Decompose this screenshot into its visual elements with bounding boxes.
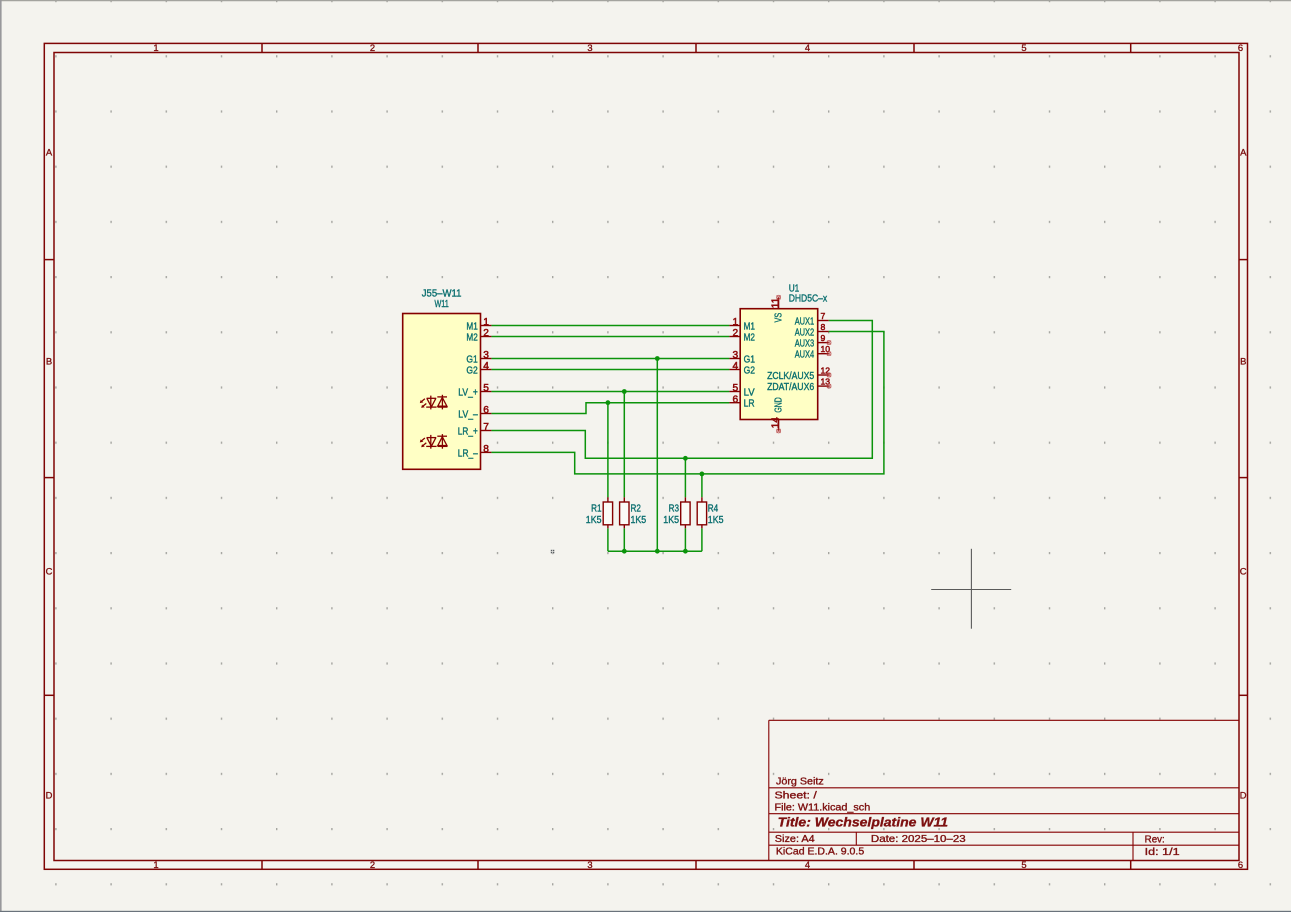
svg-text:G2: G2 bbox=[744, 365, 756, 376]
U1 pin 13 ZDAT/AUX6 bbox=[767, 377, 830, 393]
svg-text:10: 10 bbox=[821, 344, 831, 354]
wire net G2 bbox=[491, 369, 729, 371]
svg-text:7: 7 bbox=[821, 311, 826, 321]
svg-text:1K5: 1K5 bbox=[586, 515, 602, 526]
wire R2 bottom wire bbox=[623, 528, 625, 551]
svg-text:4: 4 bbox=[805, 859, 810, 870]
J55 pin 6 LV_&#8211; bbox=[458, 405, 491, 420]
resistor R3 1K5 bbox=[663, 497, 690, 528]
wire R3 top wire bbox=[684, 458, 686, 497]
svg-text:Rev:: Rev: bbox=[1145, 834, 1165, 845]
svg-text:AUX1: AUX1 bbox=[795, 316, 815, 327]
svg-text:C: C bbox=[1240, 566, 1247, 577]
svg-text:6: 6 bbox=[733, 394, 739, 405]
connector J55 body bbox=[403, 314, 481, 470]
wire R1 top wire bbox=[607, 403, 609, 498]
svg-text:2: 2 bbox=[370, 42, 375, 53]
resistor R1 1K5 bbox=[586, 497, 613, 528]
junction bus R3 bbox=[683, 549, 688, 554]
svg-text:4: 4 bbox=[733, 361, 739, 372]
svg-text:VS: VS bbox=[774, 313, 785, 323]
wire R1 bottom wire bbox=[607, 528, 609, 551]
unconnected pin marker pin 11 bbox=[777, 295, 781, 299]
svg-text:R4: R4 bbox=[708, 503, 719, 514]
svg-text:13: 13 bbox=[821, 377, 831, 387]
svg-text:A: A bbox=[46, 147, 53, 158]
wire bottom bus wire bbox=[608, 550, 702, 552]
U1 pin 14 GND bottom bbox=[770, 397, 784, 430]
svg-text:M2: M2 bbox=[744, 332, 756, 343]
J55 pin 4 G2 bbox=[466, 361, 491, 376]
J55 pin 5 LV_+ bbox=[458, 383, 491, 398]
svg-text:DHD5C–x: DHD5C–x bbox=[789, 294, 828, 305]
unconnected pin marker pin 9 bbox=[827, 341, 831, 345]
svg-text:AUX2: AUX2 bbox=[795, 327, 815, 338]
U1 pin 4 G2 bbox=[729, 361, 755, 376]
svg-text:2: 2 bbox=[483, 328, 489, 339]
svg-text:Jörg Seitz: Jörg Seitz bbox=[776, 776, 824, 787]
U1 pin 11 VS top bbox=[770, 297, 784, 322]
U1 pin 12 ZCLK/AUX5 bbox=[767, 366, 830, 382]
U1 pin 6 LR bbox=[729, 394, 754, 409]
wire net M2 bbox=[491, 336, 729, 338]
svg-text:LR_–: LR_– bbox=[458, 448, 478, 459]
svg-text:M1: M1 bbox=[466, 321, 478, 332]
svg-text:9: 9 bbox=[821, 333, 826, 343]
svg-text:Size: A4: Size: A4 bbox=[775, 834, 816, 845]
svg-text:D: D bbox=[46, 790, 53, 801]
svg-text:4: 4 bbox=[483, 361, 489, 372]
svg-text:3: 3 bbox=[587, 859, 592, 870]
frame row labels left bbox=[46, 147, 53, 801]
svg-text:4: 4 bbox=[805, 42, 810, 53]
svg-text:AUX3: AUX3 bbox=[795, 339, 815, 350]
svg-text:GND: GND bbox=[774, 397, 785, 412]
wire net G1 vertical to resistor bus bbox=[656, 359, 658, 552]
svg-text:LV_+: LV_+ bbox=[458, 387, 478, 398]
svg-text:LV: LV bbox=[744, 387, 755, 398]
svg-text:M2: M2 bbox=[466, 332, 478, 343]
svg-text:AUX4: AUX4 bbox=[795, 350, 815, 361]
svg-text:G1: G1 bbox=[466, 354, 478, 365]
svg-text:1K5: 1K5 bbox=[631, 515, 647, 526]
wire R4 bottom wire bbox=[701, 528, 703, 551]
IC U1 body bbox=[740, 309, 818, 420]
wire R4 top wire bbox=[701, 474, 703, 497]
svg-text:12: 12 bbox=[821, 366, 831, 376]
wire net LR_- to AUX2 bbox=[491, 332, 884, 474]
frame column labels bottom bbox=[153, 859, 1243, 870]
svg-text:1K5: 1K5 bbox=[663, 515, 679, 526]
svg-text:2: 2 bbox=[733, 328, 739, 339]
U1 pin 2 M2 bbox=[729, 328, 755, 343]
svg-text:Date: 2025–10–23: Date: 2025–10–23 bbox=[871, 834, 966, 845]
svg-text:5: 5 bbox=[1021, 859, 1026, 870]
svg-text:R1: R1 bbox=[591, 503, 602, 514]
svg-text:W11: W11 bbox=[434, 299, 449, 310]
LED symbol D1 (anti-parallel diodes) bbox=[420, 395, 448, 410]
junction R4 top bbox=[700, 472, 705, 477]
svg-text:File: W11.kicad_sch: File: W11.kicad_sch bbox=[775, 802, 871, 813]
svg-text:3: 3 bbox=[483, 350, 489, 361]
svg-text:B: B bbox=[46, 356, 52, 367]
J55 pin 7 LR_+ bbox=[458, 422, 492, 437]
svg-text:5: 5 bbox=[483, 383, 489, 394]
svg-text:R3: R3 bbox=[669, 503, 680, 514]
unconnected pin marker pin 14 bbox=[777, 429, 781, 433]
wire net LV_- to U1 LR bbox=[491, 403, 729, 414]
svg-text:8: 8 bbox=[483, 444, 489, 455]
junction bus R2 bbox=[622, 549, 627, 554]
U1 pin 7 AUX1 bbox=[795, 311, 829, 327]
resistor R2 1K5 bbox=[620, 497, 647, 528]
svg-text:8: 8 bbox=[821, 322, 826, 332]
junction LR jog / R1 bbox=[606, 400, 611, 405]
svg-text:LR_+: LR_+ bbox=[458, 426, 478, 437]
junction LV_+ / R2 bbox=[622, 389, 627, 394]
LED symbol D2 (anti-parallel diodes) bbox=[420, 434, 448, 449]
U1 pin 5 LV bbox=[729, 383, 755, 398]
svg-text:R2: R2 bbox=[631, 503, 642, 514]
svg-text:LR: LR bbox=[744, 399, 755, 410]
svg-text:6: 6 bbox=[1238, 42, 1243, 53]
J55 pin 1 M1 bbox=[466, 317, 491, 332]
wire net M1 bbox=[491, 325, 729, 327]
wire net LR_+ to AUX1 bbox=[491, 321, 872, 459]
J55 pin 2 M2 bbox=[466, 328, 491, 343]
unconnected pin marker pin 10 bbox=[827, 352, 831, 356]
svg-text:14: 14 bbox=[770, 417, 781, 429]
svg-text:G1: G1 bbox=[744, 354, 756, 365]
svg-text:Sheet: /: Sheet: / bbox=[775, 790, 818, 801]
svg-text:D: D bbox=[1240, 790, 1247, 801]
wire net G1 bbox=[491, 358, 729, 360]
U1 pin 10 AUX4 bbox=[795, 344, 831, 360]
wire R2 top wire bbox=[623, 392, 625, 498]
svg-text:Id: 1/1: Id: 1/1 bbox=[1145, 847, 1180, 858]
svg-text:M1: M1 bbox=[744, 321, 756, 332]
J55 pin 8 LR_&#8211; bbox=[458, 444, 492, 459]
svg-text:1: 1 bbox=[483, 317, 489, 328]
svg-text:C: C bbox=[46, 566, 53, 577]
svg-text:1K5: 1K5 bbox=[708, 515, 724, 526]
svg-text:ZDAT/AUX6: ZDAT/AUX6 bbox=[767, 382, 814, 393]
J55 pin 3 G1 bbox=[466, 350, 491, 365]
grid origin marker bbox=[551, 550, 555, 554]
unconnected pin marker pin 12 bbox=[827, 373, 831, 377]
wire R3 bottom wire bbox=[684, 528, 686, 551]
svg-text:6: 6 bbox=[1238, 859, 1243, 870]
junction R3 top bbox=[683, 456, 688, 461]
svg-text:LV_–: LV_– bbox=[458, 409, 478, 420]
svg-text:6: 6 bbox=[483, 405, 489, 416]
svg-text:1: 1 bbox=[733, 317, 739, 328]
title block frame bbox=[769, 720, 1239, 860]
U1 pin 8 AUX2 bbox=[795, 322, 829, 338]
svg-text:7: 7 bbox=[483, 422, 489, 433]
svg-text:ZCLK/AUX5: ZCLK/AUX5 bbox=[767, 371, 814, 382]
svg-text:G2: G2 bbox=[466, 365, 478, 376]
svg-text:KiCad E.D.A. 9.0.5: KiCad E.D.A. 9.0.5 bbox=[776, 846, 864, 857]
title block texts bbox=[775, 776, 1180, 858]
unconnected pin marker pin 13 bbox=[827, 384, 831, 388]
U1 pin 3 G1 bbox=[729, 350, 755, 365]
svg-text:B: B bbox=[1240, 356, 1246, 367]
svg-text:5: 5 bbox=[1021, 42, 1026, 53]
frame column labels top bbox=[153, 42, 1243, 53]
svg-text:3: 3 bbox=[733, 350, 739, 361]
wire net LV_+ bbox=[491, 391, 729, 393]
U1 pin 1 M1 bbox=[729, 317, 755, 332]
svg-text:1: 1 bbox=[153, 859, 158, 870]
junction G1 bbox=[655, 356, 660, 361]
svg-text:2: 2 bbox=[370, 859, 375, 870]
svg-text:1: 1 bbox=[153, 42, 158, 53]
resistor R4 1K5 bbox=[697, 497, 724, 528]
svg-text:3: 3 bbox=[587, 42, 592, 53]
svg-text:A: A bbox=[1240, 147, 1247, 158]
cursor crosshair bbox=[931, 549, 1011, 629]
U1 pin 9 AUX3 bbox=[795, 333, 829, 349]
svg-text:Title: Wechselplatine W11: Title: Wechselplatine W11 bbox=[778, 814, 948, 829]
frame row labels right bbox=[1240, 147, 1247, 801]
junction bus G1 bbox=[655, 549, 660, 554]
svg-text:5: 5 bbox=[733, 383, 739, 394]
